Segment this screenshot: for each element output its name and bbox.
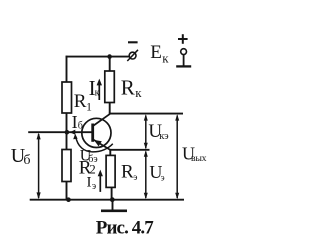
wire R1 to base node xyxy=(66,113,68,132)
svg-text:кэ: кэ xyxy=(159,131,169,142)
label Uvyh xyxy=(182,144,207,164)
plus terminal circle xyxy=(181,49,187,55)
svg-text:к: к xyxy=(162,51,169,66)
collector node line xyxy=(109,113,183,115)
label Ub xyxy=(11,145,31,168)
svg-text:бэ: бэ xyxy=(88,154,97,165)
svg-text:вых: вых xyxy=(191,153,207,164)
transistor emitter lead xyxy=(93,139,111,150)
base current arrowhead Ib xyxy=(70,130,76,135)
svg-text:э: э xyxy=(133,173,137,183)
label R1 xyxy=(74,91,92,114)
label Uke xyxy=(148,121,169,142)
label Rk xyxy=(121,76,142,100)
Ube arc arrowhead xyxy=(73,134,77,140)
label Ube xyxy=(80,148,98,166)
label Ie xyxy=(87,175,97,193)
wire Rk to collector node xyxy=(109,103,111,114)
transistor base bar xyxy=(91,124,94,142)
current arrow Ik xyxy=(97,79,102,100)
svg-text:э: э xyxy=(92,181,96,192)
wire emitter node to Re xyxy=(109,150,111,156)
transistor emitter arrow xyxy=(94,140,102,147)
wire Re to bottom rail xyxy=(111,187,113,199)
minus sign over terminal xyxy=(128,41,138,43)
wire top to Rk xyxy=(109,57,111,72)
wire R2 to bottom rail xyxy=(66,182,68,200)
bottom rail xyxy=(30,199,184,201)
svg-text:E: E xyxy=(150,42,162,63)
svg-text:R: R xyxy=(121,162,134,183)
junction R2 bottom xyxy=(66,197,71,202)
transistor collector lead xyxy=(93,114,110,126)
junction base node xyxy=(65,130,70,135)
transistor VT circle xyxy=(82,118,111,147)
Ube arc xyxy=(76,136,113,152)
label Ik xyxy=(89,76,100,100)
emitter node line xyxy=(109,149,149,151)
svg-text:б: б xyxy=(23,153,30,168)
junction top collector branch xyxy=(107,54,112,59)
wire base node to R2 xyxy=(66,132,68,150)
plus terminal sign xyxy=(178,34,188,44)
terminal -Ek circle xyxy=(127,50,138,61)
voltage dimension Uke xyxy=(144,114,148,149)
plus terminal lead xyxy=(183,55,185,66)
svg-text:R: R xyxy=(74,91,87,112)
label Ek xyxy=(150,42,169,66)
svg-text:б: б xyxy=(78,121,83,132)
svg-text:1: 1 xyxy=(86,100,92,114)
svg-text:I: I xyxy=(87,175,92,191)
svg-text:I: I xyxy=(72,112,78,132)
voltage dimension Uvyh xyxy=(175,114,179,199)
plus terminal bar xyxy=(176,65,191,67)
ground xyxy=(101,200,127,211)
svg-text:Рис. 4.7: Рис. 4.7 xyxy=(96,218,154,239)
resistor Rk xyxy=(105,71,115,103)
label Re xyxy=(121,162,137,184)
label Ue xyxy=(149,162,164,182)
label Ib xyxy=(72,112,83,132)
wire left branch top xyxy=(66,56,68,83)
top supply wire xyxy=(66,56,130,58)
voltage dimension Ub xyxy=(37,133,41,200)
junction emitter bottom xyxy=(110,197,115,202)
resistor Re xyxy=(106,155,115,187)
current arrow Ie xyxy=(98,170,103,192)
svg-text:к: к xyxy=(135,85,142,100)
resistor R1 xyxy=(62,82,72,113)
resistor R2 xyxy=(62,150,71,182)
base wire xyxy=(28,131,92,133)
svg-text:э: э xyxy=(161,172,165,182)
voltage dimension Ue xyxy=(144,150,148,199)
svg-text:R: R xyxy=(121,76,135,100)
label R2 xyxy=(79,158,96,179)
